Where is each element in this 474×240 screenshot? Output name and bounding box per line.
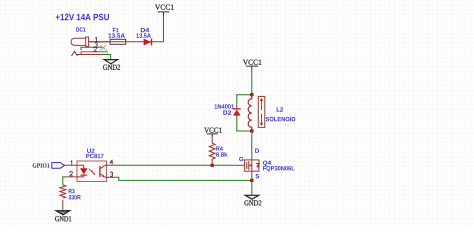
fuse F1 designator [113, 28, 119, 32]
no-ERC marker X [100, 45, 106, 50]
wire top junction to diode D2 [237, 95, 252, 105]
wire sleeve to GND2 [104, 55, 111, 60]
wire R3 to GND1 [62, 200, 64, 211]
resistor R3 designator [69, 189, 75, 193]
mosfet Q4 part [263, 166, 294, 172]
optocoupler U2 pin 2 [66, 176, 84, 178]
resistor R4 [209, 138, 215, 166]
pin number 1 [95, 37, 98, 41]
ground GND2 bottom label [244, 200, 261, 205]
fuse F1 value [108, 33, 124, 37]
wire VCC1 to solenoid top [251, 70, 253, 95]
wire U2 pin3 to source [117, 177, 252, 180]
diode D2 [236, 104, 238, 108]
pin number 2 [70, 172, 73, 176]
port GPIO1 symbol [52, 163, 65, 169]
node solenoid top [250, 93, 254, 97]
power port VCC1 mid symbol [207, 134, 218, 138]
node solenoid bottom [250, 129, 254, 133]
power port VCC1 right label [243, 60, 261, 65]
optocoupler U2 body [77, 161, 107, 181]
inductor L2 coil [248, 95, 252, 131]
wire diode D4 to VCC1 [157, 16, 164, 42]
mosfet Q4 body [245, 160, 259, 171]
resistor R3 value [68, 195, 80, 199]
connector DC1 sleeve arrow [72, 51, 78, 56]
diode D4 designator [141, 28, 149, 32]
pin number 3 [110, 172, 112, 177]
ground GND2 bottom symbol [245, 195, 259, 199]
mosfet Q4 source pin [251, 171, 253, 180]
power port VCC1 mid label [204, 128, 222, 133]
wire U2 pin4 to gate [117, 164, 236, 166]
fuse F1 body [110, 39, 126, 44]
connector DC1 pin 1 [89, 41, 108, 43]
resistor R4 designator [216, 147, 223, 151]
inductor L2 designator [277, 107, 283, 111]
wire U2 pin2 down to R3 [63, 177, 66, 185]
pin number 2 [94, 47, 97, 51]
mosfet Q4 pin label G [239, 157, 243, 161]
optocoupler U2 part [86, 154, 103, 158]
port GPIO1 label [33, 163, 50, 167]
connector DC1 pin 2 [81, 52, 108, 54]
optocoupler U2 pin 1 [65, 164, 84, 166]
text +12V 14A PSU [56, 14, 109, 21]
optocoupler LED [83, 165, 85, 168]
pin number 4 [110, 160, 113, 164]
power port VCC1 top symbol [158, 12, 170, 16]
mosfet Q4 designator [263, 161, 271, 167]
node source [250, 179, 254, 183]
wire D2 to bottom junction [237, 120, 252, 131]
pin number 1 [70, 161, 73, 165]
diode D2 part [215, 104, 234, 108]
inductor L2 value [266, 117, 296, 121]
connector DC1 designator [76, 27, 85, 31]
optocoupler U2 pin 3 [105, 176, 117, 178]
connector DC1 pin 3 [81, 47, 104, 50]
wire source to GND2 [251, 180, 253, 195]
diode D4 value [136, 33, 151, 37]
mosfet Q4 body diode [256, 164, 260, 167]
diode D2 designator [223, 110, 231, 114]
ground GND2 top label [103, 65, 120, 70]
wire DC1 pin1 to diode D4 [89, 41, 157, 43]
mosfet Q4 pin label S [255, 174, 259, 178]
ground GND1 label [55, 216, 71, 221]
diode D4 [144, 39, 152, 46]
mosfet Q4 pin label D [255, 149, 259, 153]
ground GND1 symbol [56, 211, 69, 215]
optocoupler U2 pin 4 [105, 164, 117, 166]
optocoupler light arrows [89, 169, 94, 174]
power port VCC1 right symbol [246, 66, 258, 70]
ground GND2 top symbol [104, 60, 117, 64]
resistor R3 [60, 185, 66, 198]
resistor R4 value [216, 152, 227, 157]
optocoupler phototransistor [99, 166, 101, 177]
junction R4 gate [210, 163, 214, 167]
connector DC1 barrel [71, 37, 89, 46]
power port VCC1 top label [155, 5, 174, 10]
wire solenoid to drain [251, 131, 253, 151]
pin number 3 [95, 42, 97, 47]
optocoupler U2 designator [87, 149, 94, 153]
solenoid plunger symbol [258, 96, 265, 127]
connector DC1 sleeve bar [76, 54, 104, 56]
